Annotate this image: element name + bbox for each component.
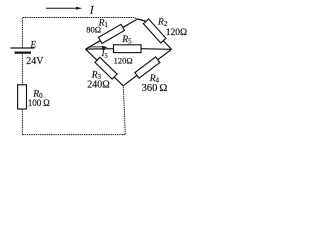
resistor R3 (240 ohm)	[95, 57, 117, 79]
wire: R0 bottom to bottom rail	[21, 109, 23, 135]
battery E plates	[10, 48, 34, 53]
svg-text:R2: R2	[157, 17, 168, 28]
current arrow I5 (middle branch)	[88, 46, 108, 49]
resistor R4 (360 ohm)	[135, 57, 160, 78]
wire: bottom rail	[22, 134, 125, 136]
svg-text:360 Ω: 360 Ω	[142, 83, 168, 94]
wire: battery bottom to resistor R0 top	[21, 53, 23, 85]
wire: battery top up and right to top node T	[22, 18, 137, 49]
wire: riser from bottom rail to bridge node B	[123, 86, 125, 135]
svg-text:120Ω: 120Ω	[166, 28, 187, 38]
svg-text:100 Ω: 100 Ω	[28, 98, 50, 108]
svg-text:120Ω: 120Ω	[114, 56, 133, 66]
resistor R5 (120 ohm)	[114, 45, 142, 53]
wire: bridge edge L-T (carries R1)	[86, 19, 138, 49]
resistor R0	[18, 85, 27, 109]
svg-text:R5: R5	[121, 35, 132, 46]
resistor R2 (120 ohm)	[143, 19, 166, 43]
svg-text:240Ω: 240Ω	[87, 80, 109, 91]
resistor R1 (80 ohm)	[98, 24, 124, 43]
svg-text:E: E	[30, 40, 37, 50]
wire: middle branch L-R (carries R5)	[86, 48, 172, 51]
wire: bridge edge T-R (carries R2)	[138, 19, 172, 49]
wire: bridge edge L-B (carries R3)	[86, 49, 124, 86]
current arrow I (top)	[46, 7, 82, 10]
svg-text:24V: 24V	[26, 56, 44, 67]
svg-text:80Ω: 80Ω	[86, 25, 101, 35]
wire: bridge edge B-R (carries R4)	[123, 49, 171, 86]
